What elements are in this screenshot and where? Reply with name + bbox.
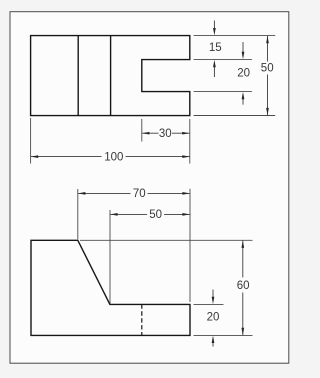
svg-text:20: 20 [207,312,220,324]
svg-text:20: 20 [237,68,250,80]
svg-text:15: 15 [209,42,222,54]
svg-text:100: 100 [104,151,123,163]
svg-text:50: 50 [149,209,162,221]
svg-text:60: 60 [237,280,250,292]
svg-text:50: 50 [261,63,274,75]
svg-text:70: 70 [133,188,146,200]
svg-text:30: 30 [159,128,172,140]
